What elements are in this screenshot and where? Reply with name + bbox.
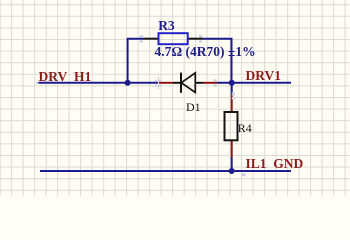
resistor R3 body xyxy=(159,33,188,44)
wire: R3 loop right side down xyxy=(203,39,232,83)
wire: red segment left of diode xyxy=(159,82,173,84)
wire: R3 loop up-left vertical xyxy=(128,39,144,83)
junction dot at node DRV1 / R3 / D1 xyxy=(229,80,235,86)
wire: red vertical below R4 xyxy=(231,140,233,157)
off-grid marker near top wire left end xyxy=(36,82,39,85)
off-grid marker pair right of R3 xyxy=(199,35,202,37)
junction dot at node DRV_H1 / R3 xyxy=(125,80,131,86)
svg-text:4.7Ω (4R70) ±1%: 4.7Ω (4R70) ±1% xyxy=(155,44,256,59)
wire: red vertical to R4 top xyxy=(231,94,233,112)
off-grid marker pair right of diode xyxy=(214,79,217,81)
svg-text:D1: D1 xyxy=(186,100,201,114)
off-grid marker pair below junction 2 xyxy=(232,93,235,96)
diode D1 cathode bar xyxy=(180,73,182,93)
diode D1 right pin stub xyxy=(195,82,203,84)
svg-text:R3: R3 xyxy=(158,18,175,33)
resistor R3 pin 1 xyxy=(144,38,159,40)
off-grid marker cluster left of diode xyxy=(158,77,159,90)
wire: navy vertical into bottom junction xyxy=(231,157,233,171)
diode D1 triangle xyxy=(181,73,195,93)
wire: red segment right of diode xyxy=(203,82,217,84)
wire: vertical navy stub below junction 2 xyxy=(231,83,233,94)
diode D1 left pin stub xyxy=(173,82,181,84)
junction dot at bottom IL1_GND / R4 xyxy=(229,168,235,174)
svg-text:DRV_H1: DRV_H1 xyxy=(39,69,92,84)
off-grid marker right of bottom junction xyxy=(242,173,246,176)
wire: bottom horizontal net IL1_GND xyxy=(40,170,291,172)
svg-text:DRV1: DRV1 xyxy=(246,68,282,83)
wire: main horizontal net DRV_H1 left segment xyxy=(38,82,159,84)
resistor R3 pin 2 xyxy=(188,38,203,40)
wire: main horizontal right navy segment to DRV1 xyxy=(217,82,291,84)
svg-text:IL1_GND: IL1_GND xyxy=(246,156,304,171)
svg-text:R4: R4 xyxy=(238,121,252,135)
resistor R4 body xyxy=(225,112,238,140)
off-grid marker pair left of R3 xyxy=(140,35,143,37)
